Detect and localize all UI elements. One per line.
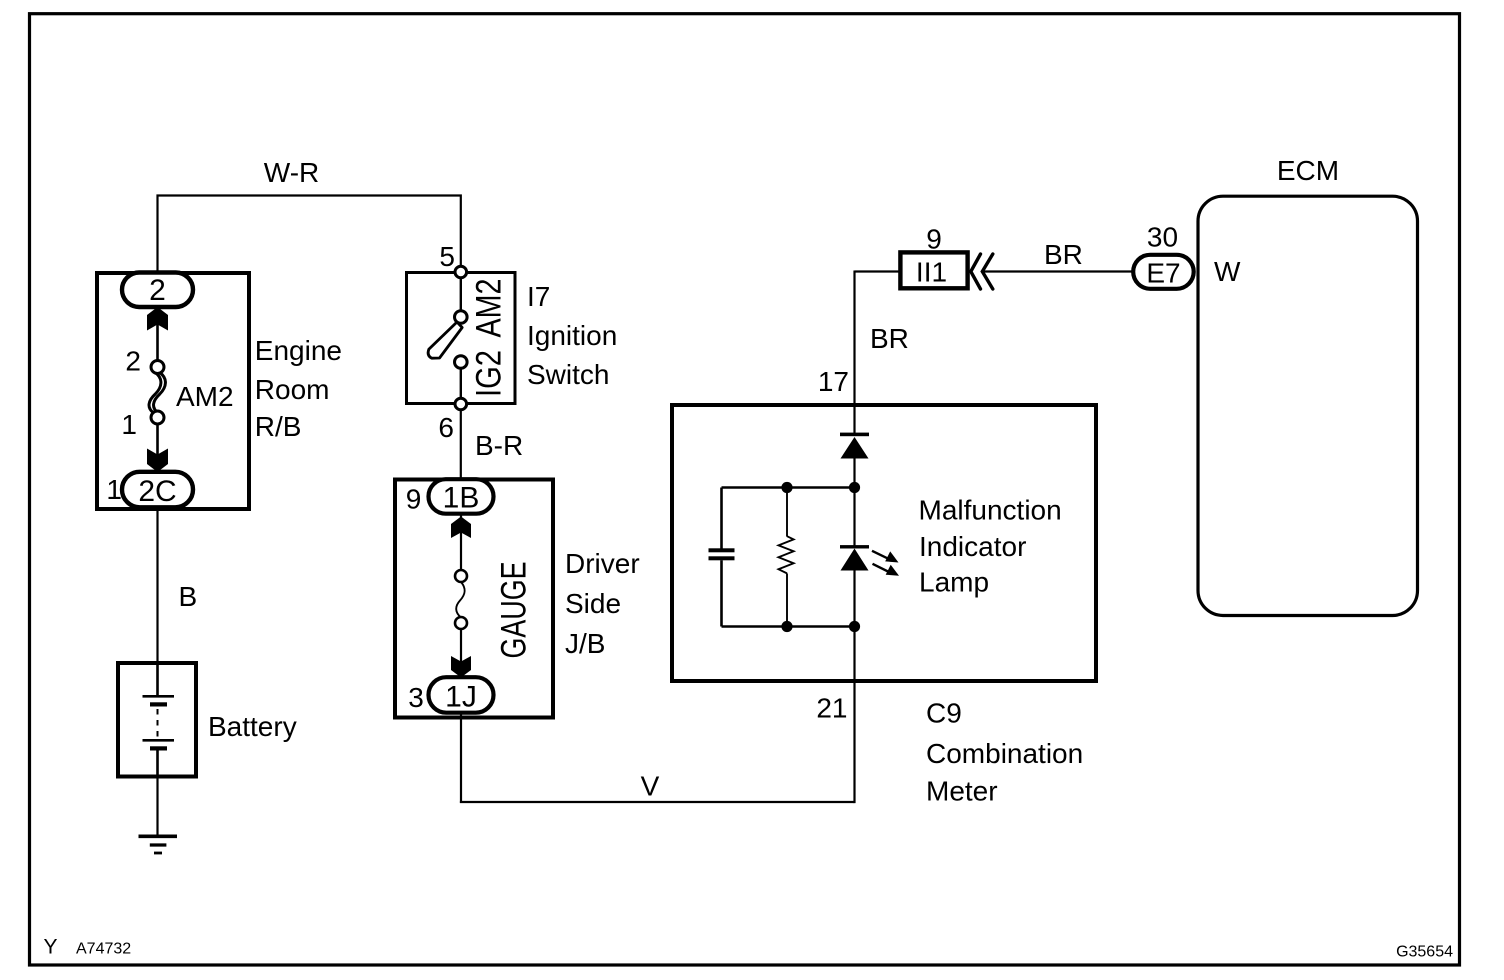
svg-text:V: V [641,771,660,802]
Driver Side J/B box [395,480,553,718]
svg-text:17: 17 [818,366,849,397]
svg-text:Battery: Battery [208,711,297,742]
connector oval 1B [429,479,494,514]
battery plate long top [143,695,175,698]
capacitor plate bottom [709,556,735,560]
LED light arrow 2 [873,564,891,573]
capacitor plate top [709,548,735,552]
svg-text:21: 21 [816,693,847,724]
svg-text:2: 2 [125,346,141,377]
svg-text:Lamp: Lamp [919,567,989,598]
wire meter 17 up to II1 [855,270,900,272]
battery dashed center line [157,709,159,737]
svg-text:2C: 2C [138,475,176,508]
resistor zigzag [779,536,794,573]
svg-text:GAUGE: GAUGE [495,562,534,659]
switch lever [428,322,462,358]
svg-text:W: W [1214,256,1241,287]
junction dot bottom left [781,621,792,632]
svg-text:Room: Room [255,374,330,405]
svg-text:E7: E7 [1146,258,1180,289]
svg-text:3: 3 [408,682,424,713]
svg-text:Y: Y [44,936,58,959]
svg-text:Switch: Switch [527,359,609,390]
battery internal wire top [156,663,159,695]
fuse GAUGE wavy [456,582,465,618]
svg-text:AM2: AM2 [176,381,234,412]
battery plate short thick top [150,702,167,706]
battery box [118,663,196,777]
arrow down (into 2C) [147,449,168,473]
wire 17 into meter [853,271,855,434]
switch contact circle IG2 [455,356,468,369]
svg-text:IG2: IG2 [470,350,509,397]
fuse terminal circle top [151,361,164,374]
svg-text:30: 30 [1147,222,1178,253]
svg-text:B-R: B-R [475,430,523,461]
junction connector II1 box [900,252,967,288]
wire 2C to battery [156,507,158,664]
fuse terminal circle bottom [151,411,164,424]
ignition switch I7 box [407,273,516,404]
svg-text:6: 6 [438,412,454,443]
connector chevron 2 [982,254,993,289]
connector chevron 1 [971,254,981,289]
svg-text:9: 9 [926,224,942,255]
svg-text:Combination: Combination [926,738,1083,769]
switch terminal circle 5 [455,266,467,278]
combination meter box [672,405,1096,681]
resistor branch upper [786,488,788,537]
svg-text:1: 1 [121,409,137,440]
branch bottom horizontal [722,625,855,628]
svg-text:I7: I7 [527,281,550,312]
Engine Room R/B box [97,273,249,509]
diode D1 triangle [841,437,869,459]
diode D1 cathode bar [840,433,869,437]
ground symbol [139,834,178,838]
capacitor branch upper [720,488,723,550]
svg-text:A74732: A74732 [76,941,131,958]
connector oval 2 [122,273,193,308]
junction dot bottom right [849,621,860,632]
LED triangle [841,549,869,571]
svg-text:Meter: Meter [926,776,998,807]
arrow up (into 2) [147,307,168,331]
wire BR to E7 [983,270,1132,272]
wire switch to J/B [460,409,462,480]
svg-text:BR: BR [1044,239,1083,270]
svg-text:1J: 1J [445,681,477,714]
junction dot top right [849,482,860,493]
svg-text:G35654: G35654 [1396,944,1453,961]
connector oval E7 [1133,255,1194,289]
wire 1J down [460,713,462,803]
resistor branch lower [786,573,788,626]
capacitor branch lower [720,560,723,626]
svg-text:1: 1 [106,474,122,505]
svg-text:Indicator: Indicator [919,531,1026,562]
wire inside J/B lower [460,621,462,679]
fusible link AM2 wavy [149,373,161,413]
wire W-R horizontal [158,196,461,274]
svg-text:5: 5 [439,241,455,272]
wire inside R/B lower [156,414,159,473]
wire battery to ground [156,777,158,836]
svg-text:Malfunction: Malfunction [919,495,1062,526]
wire V horizontal [460,801,855,803]
ECM box [1198,196,1418,615]
switch pivot circle [455,311,468,324]
wire inside J/B upper [460,512,462,578]
battery plate long bottom [143,739,175,742]
svg-text:ECM: ECM [1277,155,1339,186]
svg-text:R/B: R/B [255,411,302,442]
svg-text:BR: BR [870,323,909,354]
svg-text:1B: 1B [443,482,480,515]
battery internal wire bottom [156,751,159,777]
svg-text:II1: II1 [916,257,947,288]
svg-text:AM2: AM2 [470,279,509,338]
fuse circle bottom (GAUGE) [455,617,467,629]
wire LED to junction [853,570,855,681]
wire diode to junction [853,458,855,547]
switch terminal circle 6 [455,398,467,410]
svg-text:Driver: Driver [565,548,640,579]
junction dot top left [781,482,792,493]
switch internal wire bottom [460,367,462,400]
svg-text:2: 2 [149,274,166,307]
arrow down (into 1J) [451,656,471,678]
svg-text:Engine: Engine [255,335,342,366]
LED light arrow 1 [872,551,890,560]
svg-text:Ignition: Ignition [527,320,617,351]
battery plate short thick bottom [150,746,167,750]
branch top horizontal [722,486,855,489]
svg-text:Side: Side [565,588,621,619]
arrow up (into 1B) [451,517,471,539]
connector oval 2C [122,472,193,508]
svg-text:W-R: W-R [264,157,319,188]
switch internal wire top [460,277,462,312]
wire inside R/B upper [156,305,159,370]
LED bar [840,545,869,548]
wire up to meter 21 [853,681,855,803]
svg-text:9: 9 [406,484,422,515]
svg-text:B: B [179,581,198,612]
fuse circle top (GAUGE) [455,570,467,582]
connector oval 1J [429,677,494,713]
svg-text:C9: C9 [926,698,962,729]
svg-text:J/B: J/B [565,628,605,659]
